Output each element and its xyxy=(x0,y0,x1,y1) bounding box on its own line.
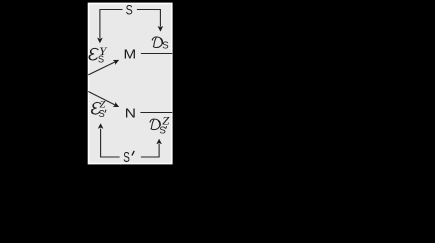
label E_S'^Z : superscript Z xyxy=(100,100,107,110)
node S' : letter S xyxy=(123,150,130,166)
arrow S to E_S^Y (top-left elbow) xyxy=(97,10,122,44)
node M xyxy=(124,47,137,62)
arrow Y to M (diagonal up-right) xyxy=(88,57,120,74)
label E_S'^Z : script E xyxy=(92,102,101,114)
label D_S : subscript S xyxy=(162,41,169,52)
node N xyxy=(125,105,136,120)
node S xyxy=(126,1,133,17)
svg-text:S: S xyxy=(126,1,133,17)
svg-text:S: S xyxy=(162,41,169,52)
label E_S^Y : script E xyxy=(89,48,98,60)
svg-text:N: N xyxy=(125,105,136,120)
label E_S^Y : superscript Y xyxy=(99,46,108,58)
label E_S'^Z : subscript prime xyxy=(104,110,107,112)
svg-text:M: M xyxy=(124,47,137,62)
figure panel xyxy=(89,3,172,163)
arrow S' to E_S'^Z (bottom-left elbow) xyxy=(98,123,120,157)
label D_S'^Z : subscript S xyxy=(159,125,166,136)
svg-text:S: S xyxy=(159,125,166,136)
label D_S'^Z : superscript Z xyxy=(162,114,170,127)
arrow S to D_S (top-right elbow) xyxy=(137,10,163,32)
label E_S'^Z : subscript S xyxy=(99,109,105,120)
label D_S : script D xyxy=(152,37,163,48)
arrow S' to D_S'^Z (bottom-right elbow) xyxy=(141,139,162,157)
label D_S'^Z : subscript prime xyxy=(165,127,168,129)
arrow M to edge (output line) xyxy=(141,53,172,55)
node S' : prime xyxy=(132,151,134,155)
svg-text:S: S xyxy=(98,54,105,65)
arrow Z to N (diagonal down-right) xyxy=(88,92,120,110)
svg-text:S: S xyxy=(123,150,130,166)
svg-text:S: S xyxy=(99,109,105,120)
arrow N to edge (output line 2) xyxy=(140,112,172,114)
label D_S'^Z : script D xyxy=(149,119,160,130)
label E_S^Y : subscript S xyxy=(98,54,105,65)
